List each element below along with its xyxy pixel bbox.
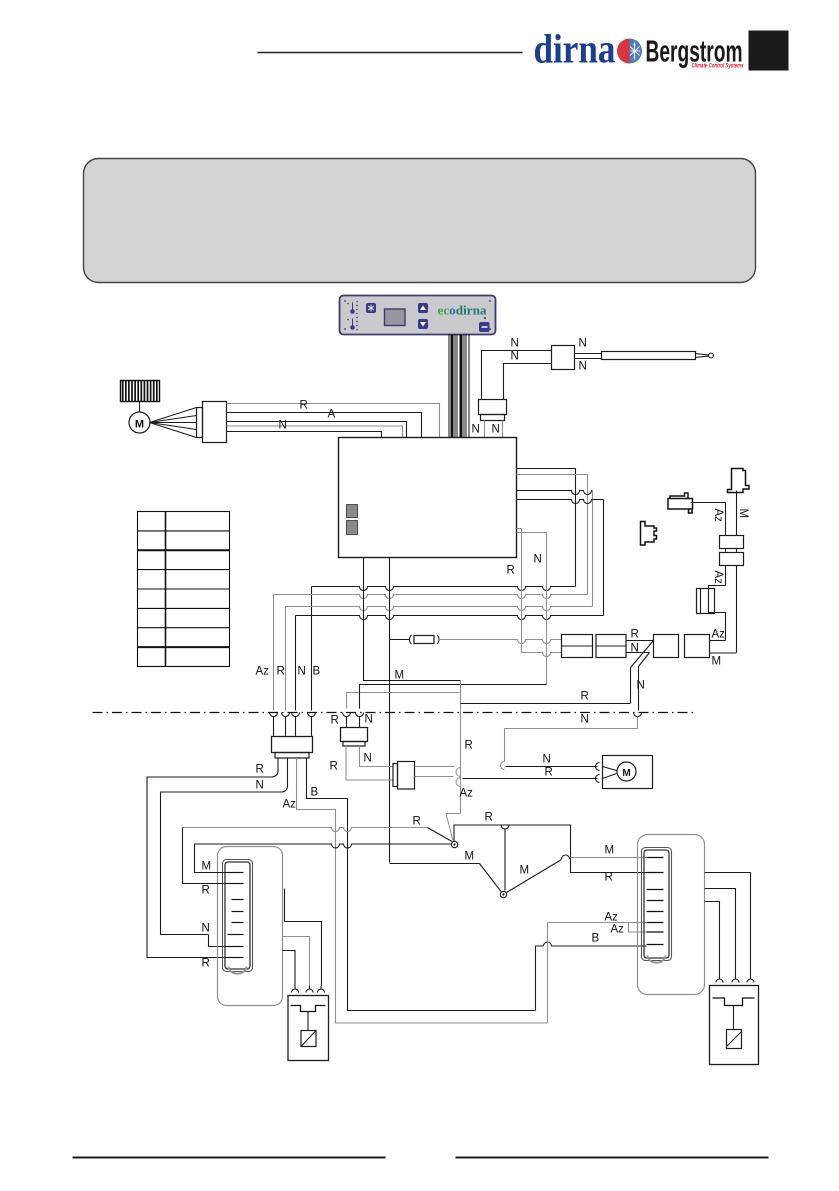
- wire heater tap 1: [285, 889, 322, 987]
- relay K6 box: [710, 986, 759, 1065]
- svg-text:Az: Az: [712, 509, 724, 523]
- inline connector X4: [393, 764, 398, 787]
- wire N below: [360, 746, 393, 767]
- svg-text:M: M: [737, 509, 749, 519]
- wire gray stub to relay wire 2: [517, 533, 547, 685]
- svg-text:M: M: [202, 861, 212, 873]
- svg-text:B: B: [311, 787, 319, 799]
- fuse F1: [390, 639, 410, 641]
- temperature probe body: [575, 353, 602, 355]
- wire R diagonal to node: [631, 641, 654, 668]
- wire S2 tap from cup: [504, 829, 506, 891]
- svg-text:Az: Az: [460, 788, 474, 800]
- motor M2 box: [603, 756, 653, 789]
- relay K2 box: [596, 635, 626, 658]
- left heater core: [223, 860, 253, 972]
- left heater housing: [218, 847, 283, 1006]
- switch S2 pivot: [500, 891, 506, 897]
- wire fuse feed from ECU: [389, 558, 391, 863]
- relay K1 box: [562, 635, 593, 658]
- wire heater tap 3: [283, 951, 296, 987]
- svg-text:R: R: [507, 565, 515, 577]
- wire heater tap 2: [283, 937, 310, 987]
- right heater ticks: [647, 857, 664, 859]
- wire M down: [736, 491, 738, 536]
- pressure switch S3: [728, 469, 750, 493]
- wire R to heater: [147, 777, 272, 958]
- svg-text:B: B: [313, 666, 321, 678]
- wire N probe upper: [482, 351, 552, 400]
- wire B drop: [311, 587, 313, 711]
- bulkhead dash-dot line: [93, 712, 694, 714]
- svg-text:N: N: [256, 780, 264, 792]
- svg-text:R: R: [202, 885, 210, 897]
- inline connector block lower: [720, 553, 744, 566]
- wire N diagonal to node: [639, 653, 650, 667]
- svg-text:Az: Az: [611, 924, 625, 936]
- dirna Bergstrom circle emblem: [617, 39, 642, 64]
- legend table: [138, 512, 230, 667]
- wire gray to relay box lower: [522, 653, 562, 657]
- svg-text:ecodirna: ecodirna: [438, 304, 488, 318]
- wire fan leads: [150, 408, 197, 423]
- svg-text:M: M: [465, 851, 475, 863]
- wire Az to right heater: [548, 922, 647, 924]
- wire N to ECU: [484, 421, 486, 438]
- relay K5 box: [288, 996, 329, 1061]
- wire stubs: [346, 717, 348, 728]
- empty note box: [84, 159, 756, 283]
- wire Az loop: [517, 475, 588, 595]
- wire Az through connector: [725, 549, 727, 553]
- ribbon cable from panel to ECU: [449, 335, 450, 438]
- header rule: [258, 52, 523, 54]
- wire B out: [307, 758, 536, 1011]
- wire gray to ECU: [227, 404, 440, 438]
- wire R feed from pivot: [454, 825, 647, 873]
- svg-text:R: R: [581, 691, 589, 703]
- wire A blower: [227, 422, 407, 438]
- svg-text:N: N: [511, 351, 519, 363]
- svg-text:R: R: [413, 816, 421, 828]
- right heater housing: [638, 835, 705, 995]
- wire R out: [272, 758, 279, 777]
- svg-text:M: M: [135, 419, 144, 431]
- svg-text:N: N: [279, 420, 287, 432]
- svg-text:Az: Az: [712, 629, 726, 641]
- svg-text:A: A: [328, 409, 336, 421]
- svg-text:R: R: [300, 400, 308, 412]
- right heater core: [642, 848, 672, 961]
- svg-text:N: N: [579, 361, 587, 373]
- wire M K4 right: [710, 652, 737, 654]
- svg-text:N: N: [511, 338, 519, 350]
- footer rule right: [456, 1157, 769, 1159]
- inline connector block upper: [720, 536, 744, 549]
- svg-text:R: R: [331, 715, 339, 727]
- wire gray 2: [227, 426, 403, 438]
- svg-text:M: M: [622, 768, 630, 779]
- connector spare P3: [641, 522, 657, 546]
- wire R below: [346, 746, 393, 780]
- svg-text:M: M: [605, 845, 615, 857]
- connector plug P2: [668, 493, 693, 513]
- wire B to right heater: [552, 945, 647, 947]
- wire N to heater: [161, 792, 282, 935]
- wire N blower: [227, 432, 382, 438]
- black corner block: [749, 31, 789, 71]
- wire Az plug to column: [691, 503, 726, 536]
- relay K5 coil: [301, 1031, 316, 1047]
- connector K3 box: [654, 635, 679, 658]
- thermal switch S4: [709, 586, 726, 641]
- footer rule left: [73, 1157, 386, 1159]
- wire Az riser: [547, 923, 549, 1024]
- wire Az drop: [273, 595, 275, 711]
- wire N from cup down: [505, 717, 638, 762]
- wire: [139, 402, 141, 413]
- wire Az K4 right: [710, 640, 726, 642]
- wire R vertical with taps: [460, 681, 462, 814]
- wire N out: [282, 758, 288, 792]
- connector X2 four pole: [272, 737, 313, 753]
- connector N N block: [479, 400, 507, 415]
- svg-text:N: N: [543, 754, 551, 766]
- wire gray R to switch contact: [183, 828, 428, 832]
- connector K4 box: [685, 635, 710, 658]
- svg-text:R: R: [605, 872, 613, 884]
- svg-text:Az: Az: [712, 571, 724, 585]
- wire fuse to relay box: [439, 640, 562, 644]
- wire R horizontal upper: [461, 703, 631, 705]
- wire N K2-K3: [626, 652, 650, 654]
- motor M blower: [129, 412, 150, 433]
- connector X3 block: [341, 728, 368, 742]
- svg-text:R: R: [465, 740, 473, 752]
- svg-text:N: N: [534, 554, 542, 566]
- ECU indicator squares: [347, 505, 358, 518]
- svg-text:N: N: [637, 680, 645, 692]
- relay K5 contact: [291, 1006, 326, 1012]
- svg-text:N: N: [298, 666, 306, 678]
- wire N to motor: [506, 766, 598, 768]
- wire stubs below bulkhead: [273, 717, 275, 737]
- connector X1 blower: [197, 408, 203, 438]
- wire N drop: [295, 616, 297, 711]
- wire M through connector: [736, 549, 738, 553]
- svg-text:dirna: dirna: [534, 26, 616, 72]
- wire R into heater: [183, 828, 228, 884]
- svg-text:R: R: [545, 767, 553, 779]
- svg-text:B: B: [592, 933, 600, 945]
- bulkhead connector cups: [270, 713, 278, 717]
- wire right heater out 2: [705, 889, 736, 977]
- wire Az blade: [446, 814, 461, 841]
- switch S1 pivot: [451, 841, 457, 847]
- wire M into heater: [195, 844, 228, 873]
- wire R blower: [227, 413, 422, 438]
- wire B loop: [517, 469, 576, 587]
- svg-text:R: R: [256, 764, 264, 776]
- wire R up from cup: [347, 693, 460, 709]
- svg-text:R: R: [277, 666, 285, 678]
- svg-text:N: N: [472, 424, 480, 436]
- connector probe: [552, 346, 575, 370]
- svg-text:R: R: [485, 812, 493, 824]
- svg-text:M: M: [395, 670, 405, 682]
- wire right heater out 1: [705, 873, 751, 977]
- ecodirna control panel U1: [340, 296, 496, 335]
- svg-text:N: N: [581, 714, 589, 726]
- wire M horizontal: [390, 863, 480, 865]
- svg-text:N: N: [579, 338, 587, 350]
- svg-text:N: N: [492, 424, 500, 436]
- svg-text:N: N: [365, 714, 373, 726]
- svg-text:Az: Az: [283, 799, 297, 811]
- wire R loop: [517, 491, 593, 495]
- wire Az jog: [629, 923, 647, 933]
- wire M from ECU: [364, 558, 461, 681]
- svg-text:Az: Az: [605, 912, 619, 924]
- switch S2 blade: [507, 860, 562, 893]
- svg-text:R: R: [202, 958, 210, 970]
- wire M to switch pivot: [195, 844, 452, 848]
- relay K6 coil: [727, 1030, 742, 1049]
- wire R contact: [428, 828, 453, 842]
- svg-text:R: R: [631, 629, 639, 641]
- wire right heater out 3: [705, 902, 720, 977]
- wire N probe lower: [504, 364, 552, 400]
- wire R drop: [285, 607, 287, 711]
- wire M feed to right heater: [571, 857, 647, 859]
- left heater ticks: [228, 872, 244, 874]
- svg-text:R: R: [330, 761, 338, 773]
- svg-text:N: N: [631, 643, 639, 655]
- wire Az out: [297, 758, 548, 1023]
- relay K6 contact: [713, 998, 755, 1006]
- wire R to motor: [463, 778, 598, 780]
- svg-text:Climate Control Systems: Climate Control Systems: [692, 63, 744, 70]
- svg-text:Az: Az: [256, 666, 270, 678]
- wire gray outputs: [415, 766, 455, 768]
- wire B riser: [536, 946, 544, 1011]
- wire N up from cup: [360, 685, 547, 709]
- svg-text:M: M: [712, 656, 722, 668]
- wire N to ECU 2: [502, 421, 504, 438]
- wire N loop: [517, 500, 604, 504]
- wire gray stub to relay wire 1: [517, 529, 522, 653]
- wire R K2-K3: [626, 640, 654, 642]
- blower resistor grid: [121, 381, 160, 402]
- motor M2 circle: [617, 762, 636, 781]
- svg-text:N: N: [202, 923, 210, 935]
- svg-text:M: M: [520, 865, 530, 877]
- svg-text:N: N: [364, 753, 372, 765]
- ECU control unit box: [339, 438, 517, 558]
